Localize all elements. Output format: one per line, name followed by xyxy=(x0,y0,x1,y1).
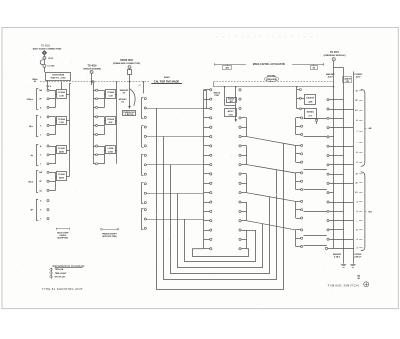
pin R4 xyxy=(327,127,329,129)
wires group A2 xyxy=(49,116,55,118)
pin S1.13 xyxy=(204,202,210,204)
svg-text:TYPE 51 SHUNTING UNIT: TYPE 51 SHUNTING UNIT xyxy=(42,287,83,291)
fuse F1 xyxy=(128,70,132,75)
bracket pin xyxy=(359,201,362,203)
pin B1.1 xyxy=(93,90,95,92)
feeder column top right xyxy=(296,86,297,87)
svg-text:C1000A: C1000A xyxy=(107,91,115,94)
svg-text:MA0JW3: MA0JW3 xyxy=(120,89,129,92)
svg-text:0.2: 0.2 xyxy=(355,192,358,194)
pin R15 xyxy=(327,229,329,231)
bracket pin xyxy=(359,110,362,112)
svg-text:Cx 500: Cx 500 xyxy=(47,66,55,68)
svg-text:(STABILISER CONNECTIVE): (STABILISER CONNECTIVE) xyxy=(113,62,141,65)
loop wire L2 xyxy=(164,136,277,279)
svg-text:TO 4021: TO 4021 xyxy=(41,44,51,47)
svg-text:(SPLICES TIME): (SPLICES TIME) xyxy=(102,236,117,238)
svg-text:400M: 400M xyxy=(59,150,64,153)
bracket pin xyxy=(359,220,362,222)
pin C4.3 xyxy=(144,202,146,204)
bracket pin xyxy=(359,247,362,249)
terminal 4017 xyxy=(332,58,335,61)
pin C1.3 xyxy=(144,116,146,118)
pin C1.2 xyxy=(144,107,146,109)
bracket pin xyxy=(359,90,362,92)
link box 4400A +407 xyxy=(227,98,237,103)
svg-text:AK: AK xyxy=(369,127,373,130)
component box A3 C100A1 xyxy=(56,150,57,152)
pin S2.18 xyxy=(239,248,241,250)
svg-text:L200A: L200A xyxy=(108,147,114,150)
pin S2.8 xyxy=(239,154,241,156)
wire C5 to S1 xyxy=(147,219,204,221)
group A1 bracket xyxy=(36,89,38,109)
bracket S3 group 4 xyxy=(295,201,297,218)
svg-text:0.1M: 0.1M xyxy=(108,96,113,98)
svg-text:8: 8 xyxy=(40,201,41,203)
svg-text:70/51: 70/51 xyxy=(214,95,220,97)
pin R11 xyxy=(327,192,329,194)
pin S1.17 xyxy=(204,239,210,241)
crossover wire D3 xyxy=(247,193,296,202)
wire C2 to S1 xyxy=(147,136,204,138)
group C5 bracket xyxy=(141,208,143,229)
group B1 tie xyxy=(104,90,106,107)
bracket pin xyxy=(359,182,362,184)
svg-text:C100A1: C100A1 xyxy=(58,173,66,176)
bracket S3 group 2 xyxy=(295,146,297,163)
wire 4019 drop xyxy=(91,73,93,85)
bracket S2 group 5 xyxy=(241,230,246,232)
pin B3.1 xyxy=(93,146,95,148)
crossover wire D4 xyxy=(247,221,296,230)
svg-text:4.02: 4.02 xyxy=(109,121,113,124)
svg-text:3: 3 xyxy=(40,210,41,212)
pin R7 xyxy=(327,154,329,156)
svg-text:–: – xyxy=(357,142,358,144)
pin S2.9 xyxy=(239,164,241,166)
loop wire L1 xyxy=(157,108,284,290)
pin S1.16 xyxy=(204,230,210,232)
connector bracket BK1 xyxy=(361,89,365,166)
mains input box xyxy=(46,73,71,81)
wires group A4 xyxy=(49,172,55,174)
pin feeder xyxy=(297,98,300,100)
pin C2.1 xyxy=(144,126,146,128)
pin R9 xyxy=(327,173,329,175)
bracket S2 group 3 xyxy=(241,173,246,175)
pin S1.4 xyxy=(204,117,210,119)
pin feeder xyxy=(297,108,300,110)
pin S1.1 xyxy=(204,89,210,91)
group B3 tie xyxy=(104,146,106,164)
pin S2.3 xyxy=(239,107,241,109)
ground GND2 xyxy=(350,264,355,266)
svg-text:4 2B 2: 4 2B 2 xyxy=(334,255,341,258)
pin S1.15 xyxy=(204,220,210,222)
svg-text:C4T20P: C4T20P xyxy=(354,253,362,256)
pin B2.2 xyxy=(93,125,95,127)
wire S1 top corner xyxy=(204,90,207,92)
svg-text:10: 10 xyxy=(355,173,357,175)
pin S2.7 xyxy=(239,145,241,147)
threshold box xyxy=(123,111,136,116)
legend symbol xyxy=(50,268,53,271)
pin S2.13 xyxy=(239,201,241,203)
svg-text:(TRIACE MODEM): (TRIACE MODEM) xyxy=(83,68,101,71)
legend chain line xyxy=(51,268,53,280)
wire C3 to S1 xyxy=(147,164,204,166)
svg-text:TRIADS MODIFY: TRIADS MODIFY xyxy=(102,232,118,235)
wire digital tick xyxy=(270,80,272,82)
svg-text:TO 4019: TO 4019 xyxy=(88,65,98,68)
label MG xyxy=(365,211,367,213)
wire bus V2 xyxy=(343,68,345,264)
svg-text:8: 8 xyxy=(40,117,41,119)
wire box to bus top xyxy=(61,82,63,90)
pin R1 xyxy=(327,99,329,101)
bracket S3 group 3 xyxy=(295,173,297,190)
legend symbol xyxy=(50,272,53,275)
pin C3.1 xyxy=(144,154,146,156)
group A3 bracket xyxy=(36,144,38,165)
loop wire L6 xyxy=(193,249,249,257)
component box A4 C100A1 xyxy=(56,176,57,178)
pin S1.10 xyxy=(204,173,210,175)
legend symbol xyxy=(50,275,53,278)
svg-text:C100A1: C100A1 xyxy=(58,147,66,150)
pin S1.9 xyxy=(204,164,210,166)
svg-text:+40B: +40B xyxy=(308,101,313,104)
box C40A7W 27B xyxy=(343,77,352,83)
dashed bus right segment xyxy=(214,81,334,83)
bracket S3 group 5 xyxy=(295,230,297,247)
bracket pin xyxy=(359,131,362,133)
pin C5.1 xyxy=(144,209,146,211)
wire lamp stack xyxy=(44,55,46,56)
bracket S2 group 4 xyxy=(241,202,246,204)
terminal stub xyxy=(316,119,318,121)
terminal 4084 xyxy=(128,66,131,69)
pin S2.5 xyxy=(239,126,241,128)
scan speckles xyxy=(131,71,134,74)
link box 40/017 27/4 xyxy=(225,109,237,117)
tag 4404 xyxy=(313,64,315,66)
component box B2 C1000A xyxy=(104,120,105,122)
pin S2.1 xyxy=(239,89,241,91)
terminal TO4019 xyxy=(90,70,93,73)
bracket pin xyxy=(359,120,362,122)
svg-text:(PRELUDE): (PRELUDE) xyxy=(266,79,277,81)
pin S1.12 xyxy=(204,192,210,194)
bracket S3 group 1 xyxy=(295,118,297,135)
bus A vertical xyxy=(69,83,71,176)
svg-text:4930AU: 4930AU xyxy=(307,111,315,114)
pin R6 xyxy=(327,145,329,147)
loop wire L5 stub xyxy=(247,230,256,232)
svg-text:C40A7W: C40A7W xyxy=(306,97,314,100)
pin S2.16 xyxy=(239,229,241,231)
svg-text:TIME LIGHT: TIME LIGHT xyxy=(55,273,68,275)
svg-text:0.1M: 0.1M xyxy=(59,96,64,98)
wires group A1 xyxy=(49,90,55,92)
svg-text:MA0JW3: MA0JW3 xyxy=(333,253,342,256)
pin S1.5 xyxy=(204,127,210,129)
pin S1.2 xyxy=(204,99,210,101)
svg-text:FROM 4084: FROM 4084 xyxy=(120,59,133,62)
pin C2.2 xyxy=(144,135,146,137)
svg-text:(SPARKING MODULE): (SPARKING MODULE) xyxy=(324,54,346,57)
group C2 bracket xyxy=(141,126,143,147)
svg-text:201B: 201B xyxy=(108,151,113,153)
pin R8 xyxy=(327,164,329,166)
ground GND1 xyxy=(341,264,346,266)
pin C5.3 xyxy=(144,227,146,229)
pin C2.3 xyxy=(144,145,146,147)
pin S2.4 xyxy=(239,117,241,119)
wire bottom tie xyxy=(325,247,327,249)
group A5 bracket xyxy=(36,199,38,220)
svg-text:1: 1 xyxy=(357,131,358,133)
bracket pin xyxy=(359,162,362,164)
pin B2.3 xyxy=(93,134,95,136)
pin feeder xyxy=(297,89,300,91)
svg-text:0.2: 0.2 xyxy=(355,110,358,112)
wires S3 to R xyxy=(304,118,327,120)
coil loop xyxy=(40,60,43,65)
svg-text:+x: +x xyxy=(138,85,140,87)
circled plus xyxy=(364,282,369,287)
svg-text:27 9: 27 9 xyxy=(308,115,312,117)
svg-text:TO: TO xyxy=(121,101,124,103)
pin S1.7 xyxy=(204,145,210,147)
svg-text:0.1M: 0.1M xyxy=(59,122,64,124)
svg-text:LIGA RODRI: LIGA RODRI xyxy=(52,73,65,76)
wire C1 to S1 xyxy=(147,108,204,110)
loop wire L5 xyxy=(185,219,256,262)
group B2 tie xyxy=(104,117,106,135)
bus B terminal xyxy=(92,81,94,83)
svg-text:MODIFYING: MODIFYING xyxy=(57,238,68,240)
pin R16 xyxy=(327,238,329,240)
wiper feed line xyxy=(235,87,237,120)
pin S1.3 xyxy=(204,108,210,110)
wiper arrow xyxy=(129,89,131,106)
pin S2.6 xyxy=(239,135,241,137)
svg-text:1: 1 xyxy=(40,164,41,166)
svg-text:AVB/C: AVB/C xyxy=(164,76,171,79)
bracket pin xyxy=(359,211,362,213)
crossover wire D2 xyxy=(247,165,296,173)
connector S1 xyxy=(203,90,205,249)
bracket S2 group 1 xyxy=(241,117,246,119)
pin B1.2 xyxy=(93,98,95,100)
dashed bus left segment xyxy=(40,81,150,83)
dimension line MAKE CAPITAL xyxy=(215,64,246,66)
group A2 bracket xyxy=(36,115,38,136)
pin B1.3 xyxy=(93,107,95,109)
svg-text:400M: 400M xyxy=(59,177,64,180)
wire V1-V2 link xyxy=(334,67,344,69)
connector bracket BK2 xyxy=(361,172,365,251)
bracket pin xyxy=(359,152,362,154)
pin R2 xyxy=(327,108,329,110)
component box B1 C1000A xyxy=(104,94,105,96)
pin C4.2 xyxy=(144,192,146,194)
pin S1.11 xyxy=(204,183,210,185)
box 4930AU 27 9 xyxy=(302,108,305,110)
pin S2.11 xyxy=(239,182,241,184)
bracket S2 group 2 xyxy=(241,145,246,147)
scan artifact dotted row xyxy=(216,36,217,37)
svg-text:SVBμs: SVBμs xyxy=(27,99,34,101)
svg-text:TRIG-UA: TRIG-UA xyxy=(55,268,64,271)
svg-text:4L0/7: 4L0/7 xyxy=(328,75,334,78)
svg-text:1: 1 xyxy=(40,219,41,221)
pin R3 xyxy=(327,117,329,119)
switch wiper arc xyxy=(130,89,136,106)
svg-text:STV-PLUG: STV-PLUG xyxy=(55,276,66,278)
bracket pin xyxy=(359,142,362,144)
svg-text:TIMING SWITCH: TIMING SWITCH xyxy=(328,283,360,287)
svg-text:3: 3 xyxy=(40,155,41,157)
bracket pin xyxy=(359,192,362,194)
indicator lamp LP1 xyxy=(42,51,46,55)
pin B3.2 xyxy=(93,154,95,156)
component box B3 L200A xyxy=(104,150,105,152)
wires group A3 xyxy=(49,146,55,148)
bracket pin xyxy=(359,239,362,241)
svg-text:1: 1 xyxy=(40,135,41,137)
svg-text:MAKE CAPITAL ACTUALISTIC: MAKE CAPITAL ACTUALISTIC xyxy=(253,63,286,66)
svg-text:CAL FOR THE MADE: CAL FOR THE MADE xyxy=(154,80,180,84)
pin C1.1 xyxy=(144,98,146,100)
bracket pin xyxy=(359,173,362,175)
pin B3.3 xyxy=(93,163,95,165)
pin R5 xyxy=(327,136,329,138)
pin R13 xyxy=(327,210,329,212)
terminal J012 xyxy=(43,56,46,59)
box C40A7W +40B xyxy=(302,98,305,100)
loop wire L4 xyxy=(178,193,263,267)
group A4 bracket xyxy=(36,171,38,192)
svg-text:W: W xyxy=(356,90,358,92)
connector column C xyxy=(143,81,144,82)
bracket pin xyxy=(359,100,362,102)
tag 485 xyxy=(227,64,229,66)
svg-text:20: 20 xyxy=(355,183,357,185)
terminal Cx500 xyxy=(43,64,46,67)
wire bus V3 xyxy=(353,72,355,264)
svg-text:DIGITAL: DIGITAL xyxy=(267,75,276,78)
svg-text:TO 4017: TO 4017 xyxy=(330,51,340,54)
pin R14 xyxy=(327,220,329,222)
wire C4 to S1 xyxy=(147,193,204,195)
pin C5.2 xyxy=(144,218,146,220)
component box A2 C1000A xyxy=(56,120,57,122)
pin S1.14 xyxy=(204,211,210,213)
group C3 bracket xyxy=(141,154,143,175)
svg-text:–: – xyxy=(357,220,358,222)
pin R10 xyxy=(327,182,329,184)
caption A dimension xyxy=(56,228,69,230)
component box A1 C1000A xyxy=(56,94,57,96)
pin S1.8 xyxy=(204,155,210,157)
bus B vertical xyxy=(116,82,118,164)
pin S1.18 xyxy=(204,248,210,250)
svg-text:MG: MG xyxy=(369,212,373,214)
svg-text:(DAY SLAVE CONNECTIVE): (DAY SLAVE CONNECTIVE) xyxy=(33,48,62,51)
svg-text:J012: J012 xyxy=(48,58,54,60)
caption B dimension xyxy=(102,229,117,231)
svg-text:C1000A: C1000A xyxy=(58,91,66,94)
svg-text:C1000A: C1000A xyxy=(58,118,66,121)
pin R12 xyxy=(327,201,329,203)
svg-text:KIAS TO +1 M5: KIAS TO +1 M5 xyxy=(51,77,67,80)
label AK xyxy=(365,128,367,130)
svg-text:40/017: 40/017 xyxy=(227,110,234,113)
loop wire L3 xyxy=(171,165,270,274)
pin S2.15 xyxy=(239,220,241,222)
svg-text:-407: -407 xyxy=(229,100,233,103)
pin B2.1 xyxy=(93,116,95,118)
svg-text:(7 BR 7/3): (7 BR 7/3) xyxy=(125,114,134,116)
pin S2.17 xyxy=(239,238,241,240)
pin S2.2 xyxy=(239,98,241,100)
pin C3.2 xyxy=(144,164,146,166)
wire bus feed L xyxy=(224,87,226,106)
pin S2.10 xyxy=(239,173,241,175)
wire 4084 drop xyxy=(129,68,131,71)
pin C4.1 xyxy=(144,183,146,185)
svg-text:27B.0/7: 27B.0/7 xyxy=(354,256,362,258)
solid bus xyxy=(214,86,334,88)
svg-text:3: 3 xyxy=(40,125,41,127)
group C1 bracket xyxy=(141,97,143,118)
wire bus V1 xyxy=(333,61,335,249)
svg-text:C1000A: C1000A xyxy=(107,118,115,121)
pin S2.12 xyxy=(239,192,241,194)
crossover wire D1 xyxy=(247,137,296,146)
pin C3.3 xyxy=(144,173,146,175)
bracket pin xyxy=(359,229,362,231)
pin S1.6 xyxy=(204,136,210,138)
group C4 bracket xyxy=(141,183,143,204)
pin S2.14 xyxy=(239,210,241,212)
